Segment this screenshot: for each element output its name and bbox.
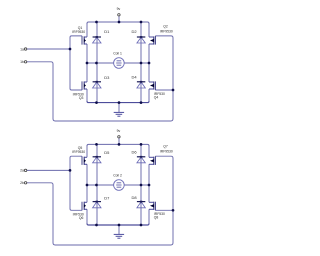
svg-text:D5: D5 — [104, 150, 110, 155]
svg-text:IRF9530: IRF9530 — [160, 29, 173, 33]
svg-text:IRF9530: IRF9530 — [72, 30, 85, 34]
svg-text:Q3: Q3 — [79, 96, 84, 100]
svg-text:Coil 1: Coil 1 — [113, 51, 122, 55]
svg-text:9v: 9v — [117, 7, 121, 11]
svg-text:2a: 2a — [20, 169, 24, 173]
svg-text:Q2: Q2 — [163, 25, 168, 29]
svg-text:D1: D1 — [104, 29, 110, 34]
svg-text:D4: D4 — [132, 74, 138, 79]
svg-text:Q7: Q7 — [163, 145, 168, 149]
svg-text:D2: D2 — [132, 29, 138, 34]
svg-text:1a: 1a — [20, 47, 24, 51]
svg-text:IRF9530: IRF9530 — [160, 149, 173, 153]
svg-text:Q8: Q8 — [154, 216, 159, 220]
svg-text:Coil 2: Coil 2 — [113, 173, 122, 177]
svg-text:D6: D6 — [132, 150, 138, 155]
svg-text:IRF9530: IRF9530 — [72, 150, 85, 154]
svg-text:D8: D8 — [132, 195, 138, 200]
svg-text:Q6: Q6 — [79, 216, 84, 220]
svg-text:1b: 1b — [20, 60, 24, 64]
svg-text:D7: D7 — [104, 196, 110, 201]
svg-text:9v: 9v — [117, 129, 121, 133]
svg-text:Q4: Q4 — [154, 96, 159, 100]
svg-text:2b: 2b — [20, 181, 24, 185]
svg-text:D3: D3 — [104, 75, 110, 80]
